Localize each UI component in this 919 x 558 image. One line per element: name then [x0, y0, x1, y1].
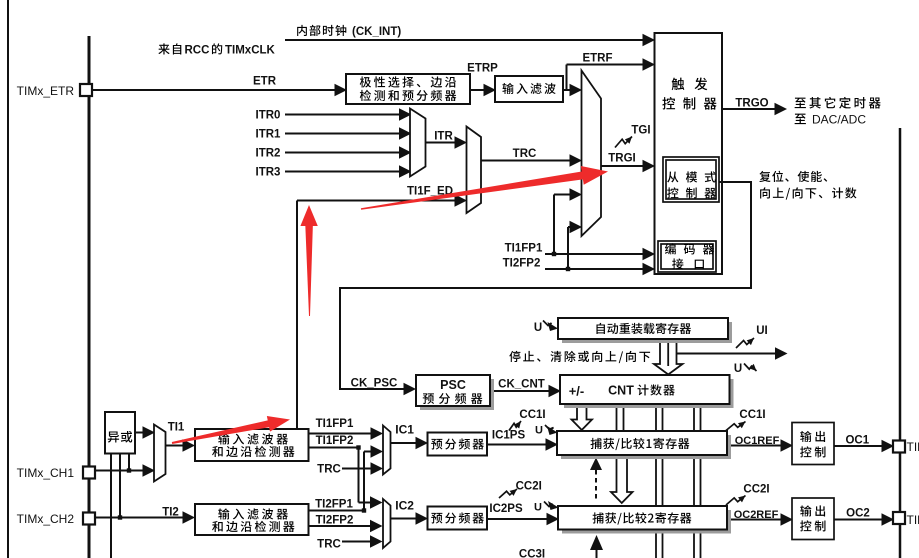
- svg-text:IC1: IC1: [395, 423, 414, 437]
- svg-text:UI: UI: [756, 325, 768, 337]
- svg-text:TIMx_CH2: TIMx_CH2: [907, 513, 919, 527]
- svg-text:+/-: +/-: [569, 384, 585, 399]
- svg-text:TI1: TI1: [168, 422, 185, 434]
- svg-text:TRC: TRC: [317, 539, 341, 551]
- svg-text:TI1FP1: TI1FP1: [316, 418, 354, 430]
- svg-text:U: U: [534, 502, 542, 514]
- svg-text:TI2FP1: TI2FP1: [315, 499, 353, 511]
- svg-text:U: U: [535, 425, 543, 437]
- svg-text:U: U: [734, 363, 742, 375]
- svg-text:TI2FP2: TI2FP2: [316, 515, 354, 527]
- svg-text:TI1FP1: TI1FP1: [505, 243, 543, 255]
- svg-text:TI2: TI2: [162, 507, 179, 519]
- svg-text:CK_PSC: CK_PSC: [351, 378, 398, 390]
- svg-text:TIMx_ETR: TIMx_ETR: [17, 84, 75, 98]
- svg-text:ITR2: ITR2: [256, 148, 281, 160]
- svg-text:CC2I: CC2I: [743, 484, 769, 496]
- svg-text:TGI: TGI: [631, 125, 650, 137]
- svg-text:ITR1: ITR1: [256, 129, 282, 141]
- svg-text:TRGO: TRGO: [735, 98, 768, 110]
- svg-text:CK_CNT: CK_CNT: [498, 379, 545, 391]
- svg-text:ITR: ITR: [434, 131, 453, 143]
- svg-text:IC2: IC2: [395, 499, 414, 513]
- svg-text:TIMx_CH2: TIMx_CH2: [17, 512, 75, 526]
- svg-text:ETRF: ETRF: [582, 53, 612, 65]
- svg-text:DAC/ADC: DAC/ADC: [812, 113, 866, 127]
- svg-text:CC2I: CC2I: [516, 481, 542, 493]
- svg-text:TIMx_CH1: TIMx_CH1: [907, 440, 919, 454]
- svg-text:PSC: PSC: [440, 378, 466, 392]
- svg-text:RCC: RCC: [185, 45, 210, 57]
- svg-text:ETR: ETR: [253, 76, 277, 88]
- svg-text:TIMxCLK: TIMxCLK: [225, 45, 276, 57]
- svg-text:OC1: OC1: [845, 435, 869, 447]
- svg-text:U: U: [534, 322, 542, 334]
- svg-text:CNT: CNT: [608, 384, 634, 398]
- svg-text:ITR3: ITR3: [256, 167, 281, 179]
- svg-text:TRGI: TRGI: [608, 153, 635, 165]
- svg-text:TIMx_CH1: TIMx_CH1: [17, 466, 75, 480]
- svg-text:OC2: OC2: [846, 508, 870, 520]
- svg-text:IC1PS: IC1PS: [492, 430, 526, 442]
- svg-text:ITR0: ITR0: [256, 110, 281, 122]
- svg-text:TI1FP2: TI1FP2: [316, 435, 354, 447]
- svg-text:(CK_INT): (CK_INT): [352, 26, 401, 38]
- svg-text:OC2REF: OC2REF: [734, 509, 779, 521]
- svg-text:TRC: TRC: [317, 464, 341, 476]
- svg-text:CC1I: CC1I: [739, 409, 765, 421]
- svg-text:TI2FP2: TI2FP2: [503, 258, 541, 270]
- svg-text:CC3I: CC3I: [519, 549, 545, 558]
- svg-text:CC1I: CC1I: [519, 409, 545, 421]
- svg-text:TRC: TRC: [513, 148, 537, 160]
- svg-text:IC2PS: IC2PS: [489, 503, 523, 515]
- svg-text:OC1REF: OC1REF: [735, 435, 780, 447]
- svg-text:ETRP: ETRP: [467, 63, 498, 75]
